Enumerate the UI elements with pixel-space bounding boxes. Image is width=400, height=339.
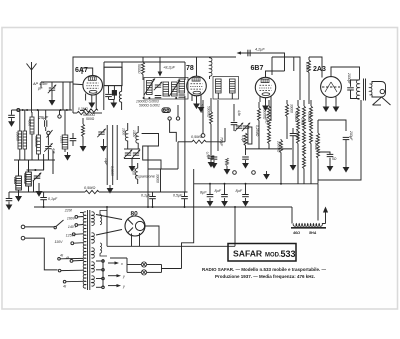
IF1 shield can <box>144 78 188 100</box>
antenna coil <box>30 117 34 134</box>
svg-text:46Ω: 46Ω <box>292 231 300 235</box>
svg-text:4000: 4000 <box>28 119 32 126</box>
grid trimmer <box>154 82 162 91</box>
tap labels <box>55 209 77 261</box>
svg-text:RADIO SAFAR. — Modello n.533 m: RADIO SAFAR. — Modello n.533 mobile e tr… <box>202 267 327 272</box>
svg-text:8μF: 8μF <box>236 189 243 193</box>
coil bank 2 lower <box>16 176 22 190</box>
svg-text:5Ω: 5Ω <box>332 157 337 161</box>
screen resistor from top bus <box>142 62 145 75</box>
top bus outer <box>73 57 236 84</box>
osc network below box <box>108 86 110 94</box>
6A7 grid left wire <box>73 83 83 86</box>
svg-text:2000pF: 2000pF <box>347 72 351 85</box>
svg-text:0,3MΩ: 0,3MΩ <box>307 112 311 122</box>
output transformer <box>357 79 373 101</box>
SAFAR mod box <box>228 244 296 262</box>
tube 2A3 <box>321 77 342 98</box>
svg-text:140 ℓ: 140 ℓ <box>68 225 77 229</box>
field coil <box>291 207 328 235</box>
svg-text:4,6n: 4,6n <box>237 110 241 116</box>
far-left cap to ground <box>8 192 10 198</box>
right side resistors <box>297 106 300 144</box>
svg-text:2A3: 2A3 <box>313 66 326 73</box>
svg-text:1000: 1000 <box>13 177 17 184</box>
svg-text:0,25MΩ: 0,25MΩ <box>255 125 259 137</box>
svg-text:20000Ω: 20000Ω <box>277 140 281 153</box>
svg-text:y: y <box>122 275 125 279</box>
left coil section row <box>12 109 73 111</box>
6B7 grid cap wire <box>266 71 285 77</box>
osc padder section <box>106 125 108 185</box>
IF1 coil 1 <box>144 79 155 96</box>
bias network box <box>318 120 346 131</box>
6B7 pins <box>260 97 271 122</box>
speaker cone <box>373 97 391 105</box>
svg-text:125 Λ: 125 Λ <box>66 233 76 237</box>
selector arm <box>55 220 63 227</box>
svg-text:pF: pF <box>37 87 43 91</box>
power transformer primary <box>83 210 94 290</box>
staircase wires <box>142 134 161 170</box>
top bus inner <box>104 61 185 63</box>
svg-text:2MΩ: 2MΩ <box>301 117 305 126</box>
right detector resistors <box>286 104 289 117</box>
0.5M resistor mid <box>192 140 206 143</box>
svg-text:300000: 300000 <box>34 136 38 147</box>
antenna trimmer C1 <box>48 85 56 94</box>
diode cap <box>233 104 235 122</box>
svg-text:0,5MΩ: 0,5MΩ <box>294 112 298 122</box>
ground bus y207 <box>34 206 292 208</box>
78 plate wire <box>196 57 198 76</box>
svg-text:0,1μF: 0,1μF <box>241 135 245 144</box>
svg-text:3: 3 <box>335 108 337 112</box>
coil 300000 <box>37 135 41 154</box>
cap under bias wire <box>43 192 45 197</box>
svg-text:0,0005: 0,0005 <box>110 166 114 176</box>
svg-text:x: x <box>120 262 123 266</box>
svg-text:y: y <box>122 285 125 289</box>
wire <box>40 82 42 88</box>
small coil 1333 <box>62 135 68 149</box>
svg-text:8μF: 8μF <box>200 191 207 195</box>
svg-text:+8,2μF: +8,2μF <box>163 66 176 70</box>
IF2 shield can <box>213 77 239 100</box>
top coupling cap wire <box>238 53 285 71</box>
svg-text:220ℓ: 220ℓ <box>64 209 73 213</box>
switch arm <box>47 130 53 138</box>
svg-text:300000: 300000 <box>23 173 27 184</box>
transformer taps <box>70 213 83 263</box>
junction dots <box>143 97 178 99</box>
tone cap across primary <box>351 80 360 87</box>
padder trimmer pair <box>124 149 140 171</box>
svg-text:0,1MΩ: 0,1MΩ <box>314 140 318 150</box>
trimmer 4uF <box>44 143 52 152</box>
2A3 plate wire to output <box>331 67 360 80</box>
78 plate choke <box>210 58 213 76</box>
IF1 coil 4 <box>179 79 185 93</box>
svg-text:50000: 50000 <box>200 104 204 113</box>
2A3 grid wire <box>309 57 322 78</box>
svg-text:80: 80 <box>131 211 139 218</box>
PSU wiring <box>96 215 122 220</box>
bottom box wire right <box>318 100 361 180</box>
svg-text:78: 78 <box>186 65 194 72</box>
svg-text:25μF: 25μF <box>38 115 49 120</box>
secondary side windings <box>100 211 107 257</box>
svg-text:1000: 1000 <box>122 128 126 135</box>
svg-text:0,3MΩ: 0,3MΩ <box>78 107 88 111</box>
terminal circles <box>233 171 237 175</box>
resistor below 6B7 <box>258 108 261 121</box>
wire antenna top row <box>41 81 73 83</box>
IF1 coil 2 <box>163 82 169 96</box>
rectifier tube 80 <box>125 216 145 236</box>
caps bottom <box>211 157 218 159</box>
series cap <box>155 96 162 98</box>
filament caps <box>141 192 156 207</box>
IF1 coil 3 <box>169 80 180 97</box>
coupling box after 6B7 <box>272 57 300 100</box>
svg-text:160V: 160V <box>67 216 76 220</box>
tube 6B7 <box>255 77 275 97</box>
cathode resistor cap <box>318 152 330 155</box>
band switch row <box>27 169 45 171</box>
secondary output terminals <box>102 259 104 287</box>
horizontal wire <box>245 148 292 150</box>
filter caps 8uF <box>200 184 213 206</box>
svg-text:0,1μF: 0,1μF <box>48 197 58 201</box>
IF2 coil left <box>216 79 222 93</box>
2A3 pins <box>323 97 338 112</box>
78 pins <box>192 95 204 112</box>
svg-text:0,5μF: 0,5μF <box>173 194 183 198</box>
svg-text:30000: 30000 <box>290 104 294 113</box>
osc coil 15000 <box>135 168 137 179</box>
svg-text:4,2μF: 4,2μF <box>255 48 265 52</box>
resistor x269 <box>268 106 271 144</box>
svg-text:0,1MΩ: 0,1MΩ <box>265 114 269 124</box>
svg-text:5HA: 5HA <box>309 231 317 235</box>
cap right of coil <box>70 139 77 141</box>
oscillator tuning box <box>104 67 122 85</box>
svg-text:5000Ω 0,0001: 5000Ω 0,0001 <box>139 103 160 107</box>
transformer bottom terminals <box>58 258 61 261</box>
svg-text:8μF: 8μF <box>215 189 222 193</box>
svg-text:Espansione: Espansione <box>136 175 155 179</box>
trimmer pair 6B7 <box>235 123 243 132</box>
svg-text:0,5MΩ: 0,5MΩ <box>84 186 95 190</box>
band switch row <box>27 169 45 171</box>
svg-text:30000: 30000 <box>156 174 160 183</box>
ground <box>49 97 54 105</box>
detector column <box>202 100 204 134</box>
osc coils 1000 <box>125 130 127 140</box>
box resistor <box>248 127 252 144</box>
osc grid resistor row <box>77 111 91 114</box>
svg-text:10000: 10000 <box>16 132 20 141</box>
left input cap <box>11 110 13 115</box>
svg-text:50000: 50000 <box>137 64 141 74</box>
heater output arrows <box>108 261 125 288</box>
svg-text:Produzione 1937. — Media frequ: Produzione 1937. — Media frequenza: 476 … <box>215 274 315 279</box>
resistor vertical x309 <box>308 60 311 73</box>
wire <box>103 86 105 110</box>
bias wire y192 <box>9 191 85 193</box>
svg-text:200μF: 200μF <box>349 130 353 141</box>
coil bank 2 lower <box>16 176 22 190</box>
svg-text:700μF: 700μF <box>220 137 224 147</box>
svg-text:100μF: 100μF <box>296 131 300 141</box>
resistor zig <box>244 133 247 146</box>
IF2 coil right <box>230 79 236 93</box>
coil pair left <box>18 131 27 149</box>
svg-text:1333: 1333 <box>60 136 64 143</box>
6A7 grid top wire <box>82 68 93 75</box>
svg-text:SAFAR: SAFAR <box>233 248 263 258</box>
svg-text:MOD.: MOD. <box>265 252 281 258</box>
pilot lamps <box>110 246 182 275</box>
svg-text:10μF: 10μF <box>104 158 108 166</box>
svg-text:50000Ω: 50000Ω <box>207 106 211 118</box>
tube 78 <box>187 76 207 96</box>
speaker driver <box>372 82 386 98</box>
svg-text:0,5MΩ: 0,5MΩ <box>305 62 309 72</box>
svg-text:500Ω: 500Ω <box>86 117 95 121</box>
svg-text:6B7: 6B7 <box>251 65 264 72</box>
svg-text:3: 3 <box>325 108 327 112</box>
tube 6A7 <box>83 75 103 95</box>
svg-text:1000: 1000 <box>132 130 136 137</box>
cathode resistor <box>84 109 98 112</box>
svg-text:533: 533 <box>281 249 296 259</box>
terminal circles <box>47 131 50 134</box>
ground row <box>14 159 55 161</box>
svg-text:0,1μF: 0,1μF <box>141 194 151 198</box>
6A7 pins <box>86 94 97 109</box>
antenna <box>27 62 37 113</box>
svg-text:AP 4.5m: AP 4.5m <box>32 82 47 86</box>
svg-text:110V: 110V <box>55 240 64 244</box>
mains plug <box>21 225 25 229</box>
B+ bus y184 <box>194 183 318 185</box>
